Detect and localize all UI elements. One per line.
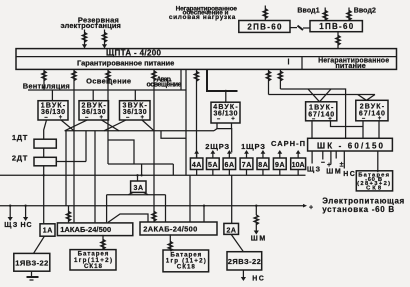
svg-text:1ПВ-60: 1ПВ-60 bbox=[319, 22, 354, 31]
svg-text:–: – bbox=[321, 160, 325, 167]
svg-text:+: + bbox=[309, 205, 313, 212]
svg-text:+: + bbox=[99, 115, 103, 121]
svg-text:1А: 1А bbox=[43, 227, 53, 234]
svg-text:+: + bbox=[231, 117, 235, 123]
svg-text:Вентиляция: Вентиляция bbox=[23, 81, 70, 90]
svg-text:освещение: освещение bbox=[146, 82, 181, 89]
svg-text:+: + bbox=[140, 115, 144, 121]
svg-text:2АКАБ-24/500: 2АКАБ-24/500 bbox=[143, 224, 197, 233]
svg-text:6А: 6А bbox=[225, 162, 235, 169]
svg-text:–: – bbox=[217, 117, 221, 123]
svg-text:3А: 3А bbox=[134, 185, 144, 192]
svg-text:2ЩРЗ: 2ЩРЗ bbox=[205, 142, 229, 151]
svg-text:9А: 9А bbox=[275, 162, 285, 169]
svg-text:+: + bbox=[328, 116, 332, 122]
svg-text:СК18: СК18 bbox=[177, 263, 196, 270]
svg-text:2ЯВЗ-22: 2ЯВЗ-22 bbox=[228, 257, 261, 266]
svg-text:5А: 5А bbox=[208, 162, 218, 169]
svg-text:НС: НС bbox=[21, 222, 32, 229]
svg-text:НС: НС bbox=[252, 275, 264, 282]
svg-text:Ввод1: Ввод1 bbox=[297, 8, 319, 15]
svg-text:2ДТ: 2ДТ bbox=[12, 154, 28, 163]
svg-text:7А: 7А bbox=[242, 162, 252, 169]
svg-text:СК18: СК18 bbox=[84, 263, 103, 270]
svg-text:1ЩРЗ: 1ЩРЗ bbox=[241, 142, 265, 151]
svg-text:ЩЗ: ЩЗ bbox=[4, 222, 18, 229]
svg-text:ШМ: ШМ bbox=[326, 168, 341, 175]
svg-text:4А: 4А bbox=[192, 162, 202, 169]
svg-text:силовая нагрузка: силовая нагрузка bbox=[169, 14, 236, 21]
svg-text:2А: 2А bbox=[226, 227, 236, 234]
svg-text:Гарантированное питание: Гарантированное питание bbox=[77, 59, 174, 68]
svg-text:ЩЗ: ЩЗ bbox=[307, 166, 321, 173]
svg-text:электростанция: электростанция bbox=[60, 21, 121, 30]
svg-text:Ввод2: Ввод2 bbox=[354, 8, 376, 15]
svg-text:установка -60 В: установка -60 В bbox=[322, 205, 394, 214]
svg-text:8А: 8А bbox=[258, 162, 268, 169]
svg-text:НС: НС bbox=[343, 171, 355, 178]
svg-text:ШМ: ШМ bbox=[251, 235, 266, 242]
svg-text:ШК - 60/150: ШК - 60/150 bbox=[317, 141, 384, 150]
svg-text:10А: 10А bbox=[292, 162, 305, 169]
svg-text:1АКАБ-24/500: 1АКАБ-24/500 bbox=[60, 225, 111, 234]
svg-text:1ЯВЗ-22: 1ЯВЗ-22 bbox=[15, 258, 48, 267]
svg-text:±: ± bbox=[340, 161, 344, 168]
svg-text:+: + bbox=[378, 116, 382, 122]
svg-text:1ДТ: 1ДТ bbox=[12, 133, 28, 142]
svg-text:СК8: СК8 bbox=[366, 186, 382, 192]
svg-text:питание: питание bbox=[335, 61, 366, 70]
svg-text:+: + bbox=[59, 115, 63, 121]
svg-text:2ПВ-60: 2ПВ-60 bbox=[247, 23, 282, 32]
svg-text:Освещение: Освещение bbox=[86, 77, 131, 86]
svg-text:САРН-П: САРН-П bbox=[271, 139, 305, 148]
svg-text:ЩПТА - 4/200: ЩПТА - 4/200 bbox=[106, 49, 162, 58]
